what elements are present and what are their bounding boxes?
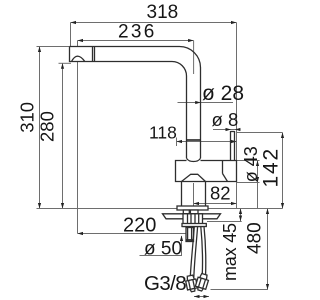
svg-text:236: 236 — [118, 22, 157, 43]
svg-text:G3/8: G3/8 — [144, 272, 186, 295]
svg-text:ø 50: ø 50 — [144, 239, 182, 260]
svg-text:ø 28: ø 28 — [202, 82, 244, 105]
svg-text:280: 280 — [37, 111, 58, 142]
svg-text:82: 82 — [210, 183, 231, 204]
svg-text:220: 220 — [123, 215, 156, 237]
svg-text:318: 318 — [147, 2, 179, 23]
svg-text:310: 310 — [17, 102, 38, 133]
svg-text:max 45: max 45 — [220, 223, 240, 281]
svg-text:ø 43: ø 43 — [241, 146, 261, 182]
svg-text:142: 142 — [260, 147, 283, 187]
svg-text:118: 118 — [149, 123, 177, 143]
svg-text:ø 8: ø 8 — [212, 109, 239, 130]
svg-text:480: 480 — [245, 222, 266, 254]
